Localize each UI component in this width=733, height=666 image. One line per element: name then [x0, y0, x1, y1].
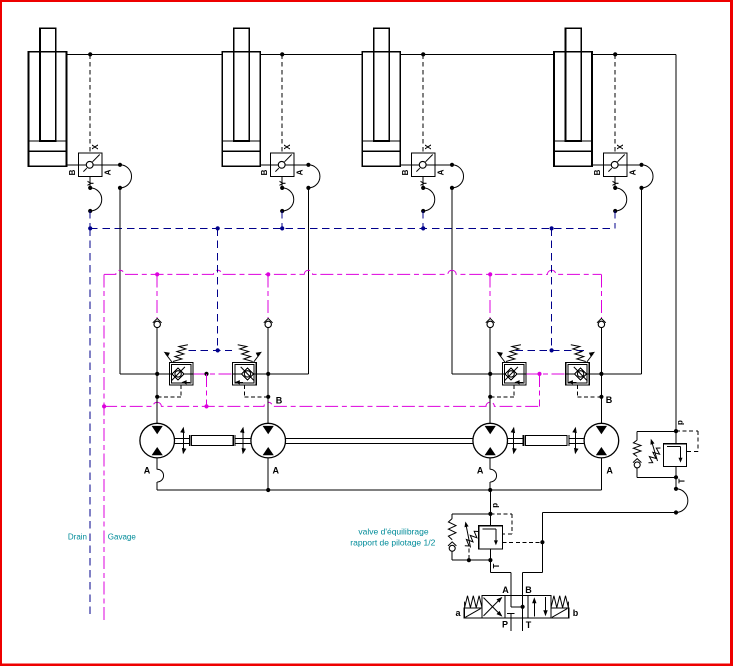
label T at relief valve — [678, 478, 687, 483]
bypass check branch of balancing valve — [448, 514, 493, 562]
wire: main line CB valve to A-line — [256, 373, 308, 375]
svg-text:a: a — [455, 608, 461, 618]
wire: main line from A-line to CB valve — [120, 373, 169, 375]
svg-text:A: A — [606, 466, 613, 476]
wire: motor3 A line with hose loop — [490, 458, 496, 490]
label B — [525, 585, 532, 595]
wire: pilot branch (navy dashed) — [551, 228, 553, 350]
label A at motor 1 — [144, 466, 151, 476]
svg-text:B: B — [260, 169, 269, 175]
wire: Drain line down left (navy dashed) — [89, 228, 91, 615]
wire: Gavage line down left (magenta) — [103, 274, 105, 622]
spring and pilot arrow of CB valve at x=566 — [571, 345, 595, 362]
wire: motor2 A line — [267, 458, 269, 490]
label Drain — [68, 533, 87, 542]
svg-text:T: T — [678, 478, 687, 483]
svg-text:Y: Y — [87, 180, 96, 186]
junction A-line left corner — [488, 372, 603, 376]
wire: drain header (navy dashed) — [90, 227, 615, 229]
label A at motor 3 — [477, 466, 484, 476]
svg-text:B: B — [401, 169, 410, 175]
wire: balancing valve drain (dashed) — [468, 549, 470, 561]
label A at motor 4 — [606, 466, 613, 476]
junctions on drain header — [88, 226, 554, 230]
wire: check valve 2 to main line — [267, 328, 269, 374]
svg-text:A: A — [502, 585, 509, 595]
svg-text:T: T — [526, 620, 532, 630]
junction lower gavage mid-left — [204, 404, 208, 408]
svg-text:B: B — [525, 585, 532, 595]
wire: motor 4 feed line — [600, 374, 602, 423]
wire: pilot X line to block 3 — [422, 54, 424, 153]
counterbalance valve at x=233 — [233, 362, 257, 385]
shaft coupling M1-M2 — [189, 435, 235, 446]
svg-text:Gavage: Gavage — [108, 533, 137, 542]
DV1 left spring and solenoid a — [464, 596, 482, 618]
label B at motor2 feed — [276, 395, 283, 405]
svg-text:X: X — [91, 144, 100, 150]
hydraulic motor M3 — [473, 423, 508, 458]
svg-text:X: X — [283, 144, 292, 150]
svg-text:T: T — [492, 563, 501, 568]
svg-text:B: B — [606, 395, 613, 405]
wire: check valve 4 to main line — [600, 328, 602, 374]
wire: gavage drop between left CB valves — [206, 374, 208, 407]
junction balancing valve p — [488, 512, 492, 516]
wire: motor1 A line with hose loop — [157, 458, 163, 490]
shaft coupling M3-M4 — [523, 435, 569, 446]
port labels block 3 — [401, 144, 446, 186]
balancing valve U1 (valve d'equilibrage) — [479, 526, 503, 549]
svg-text:A: A — [272, 466, 279, 476]
drain line of left CB valve — [488, 385, 514, 399]
wire: pump pressure line down right side — [675, 54, 677, 431]
svg-text:b: b — [573, 608, 579, 618]
rotation arrow at shaft x=183 — [180, 427, 186, 454]
drain line of left CB valve — [155, 385, 181, 399]
wire: main line from A-line to CB valve — [452, 373, 502, 375]
wire: cylinder 2 A line down — [307, 188, 309, 374]
port labels block 1 — [68, 144, 113, 186]
junction between CB valves — [537, 372, 541, 376]
hose: block 4 port A — [627, 163, 653, 190]
wire: pilot X line to block 1 — [89, 54, 91, 153]
hose: block 2 port Y — [280, 176, 294, 213]
junction A-line left corner — [155, 372, 270, 376]
wire: motor shafts — [175, 438, 585, 443]
cylinder C1 — [29, 28, 67, 166]
wire: check valve 1 to main line — [156, 328, 158, 374]
label B at motor4 feed — [606, 395, 613, 405]
wire: main line between CB valves (magenta) — [193, 373, 233, 375]
svg-text:B: B — [68, 169, 77, 175]
hose: relief T flexible loop — [676, 489, 688, 513]
label P — [502, 620, 508, 630]
label Gavage — [108, 533, 137, 542]
wire: anti-cavitation feed 3 — [489, 274, 491, 317]
junction on top line at X3 — [421, 52, 425, 56]
svg-text:X: X — [616, 144, 625, 150]
spring and pilot arrow of CB valve at x=233 — [238, 345, 262, 362]
wire: C3 rod-side port to valve block B — [400, 164, 411, 166]
wire: anti-cavitation feed 4 — [600, 274, 602, 317]
svg-text:A: A — [296, 169, 305, 175]
spring and pilot arrow of CB valve at x=169 — [164, 345, 188, 362]
hydraulic motor M2 — [251, 423, 286, 458]
svg-text:B: B — [593, 169, 602, 175]
DV1 T stub — [522, 618, 524, 631]
pilot-operated check block V3 — [412, 153, 435, 176]
hose: block 1 port A — [102, 163, 132, 190]
counterbalance valve at x=502 — [502, 362, 526, 385]
DV1 left position crossed arrows — [484, 597, 503, 617]
check valve CV2 — [264, 318, 273, 327]
junction on top line at X4 — [613, 52, 617, 56]
wire: cylinder 1 A line down — [119, 188, 121, 374]
check valve CV3 — [486, 318, 495, 327]
junction pilot branch — [550, 348, 554, 352]
DV1 centre position — [507, 595, 525, 618]
adjustable spring of balancing valve — [465, 522, 479, 548]
drain line of right CB valve — [244, 385, 270, 399]
pilot line of relief valve (dashed) — [676, 431, 698, 451]
spring and pilot arrow of CB valve at x=502 — [497, 345, 521, 362]
junction relief p — [674, 429, 678, 433]
svg-text:P: P — [502, 620, 508, 630]
wire: cylinder 3 A line down — [451, 188, 453, 374]
wire: C4 rod-side port to valve block B — [592, 164, 604, 166]
junction between CB valves — [204, 372, 208, 376]
relief valve U2 — [663, 444, 686, 467]
wire: C1 rod-side port to valve block B — [67, 164, 79, 166]
wire: motor 2 feed line — [267, 374, 269, 423]
DV1 P stub — [510, 618, 512, 631]
junction relief T hose bottom — [674, 510, 678, 514]
svg-text:Drain: Drain — [68, 533, 87, 542]
wire: anti-cavitation feed 2 — [267, 274, 269, 317]
counterbalance valve at x=566 — [566, 362, 590, 385]
svg-text:rapport de pilotage 1/2: rapport de pilotage 1/2 — [350, 538, 435, 548]
check valve CV4 — [597, 318, 606, 327]
hydraulic motor M1 — [140, 423, 175, 458]
pilot-operated check block V1 — [79, 153, 102, 176]
hydraulic motor M4 — [584, 423, 619, 458]
rotation arrow at shaft x=514 — [511, 427, 517, 454]
wire: cylinder 4 A line down — [641, 188, 643, 374]
hose: block 1 port Y — [88, 176, 102, 213]
hose: block 3 port A — [435, 163, 464, 190]
label a — [455, 608, 461, 618]
wire: motor4 A line — [600, 458, 602, 490]
rotation arrow at shaft x=243 — [240, 427, 246, 454]
wire: balancing valve T out — [490, 549, 511, 595]
pilot-operated check block V2 — [271, 153, 294, 176]
label T — [526, 620, 532, 630]
junctions on gavage header — [155, 272, 492, 276]
wire: balancing valve top port — [489, 514, 491, 526]
svg-text:X: X — [424, 144, 433, 150]
hose: block 4 port Y — [613, 176, 627, 213]
label p at relief valve — [676, 420, 685, 425]
wire: lower gavage line (magenta dash-dot) — [104, 402, 539, 406]
cylinder C2 — [222, 28, 260, 166]
wire: motor 1 feed line — [156, 374, 158, 423]
svg-text:p: p — [491, 503, 500, 508]
DV1 right position parallel arrows — [532, 597, 548, 616]
junctions on motor A bus — [266, 488, 492, 492]
svg-text:A: A — [629, 169, 638, 175]
label b — [573, 608, 579, 618]
wire: top pressure line connecting cylinder head ports — [67, 53, 677, 55]
junction pilot branch — [216, 348, 220, 352]
wire: pilot X line to block 2 — [281, 54, 283, 153]
wire: gavage header (magenta dash-dot) — [104, 270, 601, 274]
label balancing valve name — [350, 526, 435, 547]
hose: block 2 port A — [294, 163, 320, 190]
hose: block 3 port Y — [421, 176, 435, 213]
svg-text:Y: Y — [612, 180, 621, 186]
counterbalance valve at x=169 — [169, 362, 193, 385]
pilot-operated check block V4 — [604, 153, 627, 176]
svg-text:A: A — [144, 466, 151, 476]
wire: pilot branch (navy dashed) — [217, 228, 219, 350]
svg-text:A: A — [437, 169, 446, 175]
wire: gavage drop between right CB valves — [539, 374, 541, 407]
wire: C2 rod-side port to valve block B — [260, 164, 270, 166]
drain line of right CB valve — [578, 385, 604, 399]
wire: check valve 3 to main line — [489, 328, 491, 374]
wire: Y1 drain drop — [89, 211, 91, 228]
cylinder C4 — [554, 28, 592, 166]
label A at motor 2 — [272, 466, 279, 476]
junction on top line at X2 — [280, 52, 284, 56]
svg-text:A: A — [104, 169, 113, 175]
wire: relief valve ports — [675, 431, 677, 489]
wire: main line between CB valves (magenta) — [526, 373, 566, 375]
wire: anti-cavitation feed 1 — [156, 274, 158, 317]
wire: Y3 drain drop — [422, 211, 424, 228]
svg-text:Y: Y — [420, 180, 429, 186]
label A — [502, 585, 509, 595]
wire: pilot cross line (navy dashed) — [515, 349, 584, 351]
svg-text:Y: Y — [279, 180, 288, 186]
adjustable spring of relief valve — [649, 439, 661, 463]
wire: Y2 drain drop — [281, 211, 283, 228]
junction relief T hose top — [674, 487, 678, 491]
DV1 right spring and solenoid b — [551, 596, 569, 618]
rotation arrow at shaft x=575 — [572, 427, 578, 454]
wire: pilot cross line (navy dashed) — [189, 349, 233, 351]
wire: Y4 drain drop — [614, 211, 616, 228]
wire: main line CB valve to A-line — [589, 373, 641, 375]
wire: motor A bus — [157, 489, 601, 491]
junction on top line at X1 — [88, 52, 92, 56]
pilot line p of balancing valve (dashed) — [490, 514, 511, 534]
cylinder C3 — [362, 28, 400, 166]
bypass check branch of relief valve — [633, 431, 678, 479]
wire: return line T to valve B — [523, 513, 676, 596]
check valve CV1 — [153, 318, 162, 327]
svg-text:A: A — [477, 466, 484, 476]
port labels block 2 — [260, 144, 305, 186]
junction lower gavage at Gavage line — [102, 404, 106, 408]
directional valve DV1 body — [482, 595, 551, 618]
svg-text:B: B — [276, 395, 283, 405]
wire: bus to balancing valve — [489, 490, 491, 514]
port labels block 4 — [593, 144, 638, 186]
svg-text:valve d'équilibrage: valve d'équilibrage — [358, 526, 428, 536]
pilot line from B of balancing valve (dashed) — [503, 540, 545, 544]
svg-text:p: p — [676, 420, 685, 425]
wire: motor 3 feed line — [489, 374, 491, 423]
wire: pilot X line to block 4 — [614, 54, 616, 153]
label p at balancing valve — [491, 503, 500, 508]
label T at balancing valve — [492, 563, 501, 568]
